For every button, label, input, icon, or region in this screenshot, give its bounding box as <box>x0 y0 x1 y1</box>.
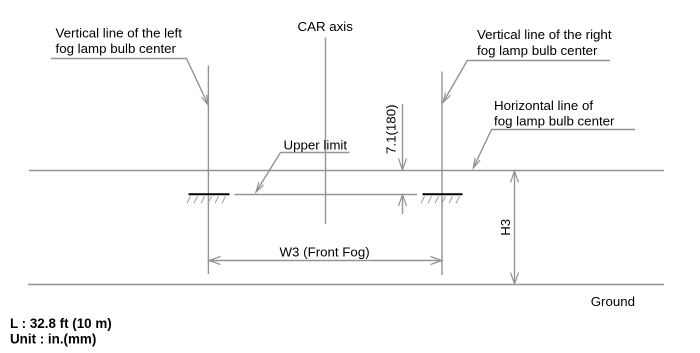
svg-text:Vertical line of the right: Vertical line of the right <box>477 27 612 42</box>
svg-text:H3: H3 <box>498 219 513 236</box>
svg-text:7.1(180): 7.1(180) <box>383 104 398 154</box>
svg-text:fog lamp bulb center: fog lamp bulb center <box>494 114 615 129</box>
svg-text:Vertical line of the left: Vertical line of the left <box>56 26 183 41</box>
svg-text:CAR axis: CAR axis <box>298 19 354 34</box>
svg-text:Ground: Ground <box>591 294 635 309</box>
svg-text:W3 (Front Fog): W3 (Front Fog) <box>280 245 370 260</box>
svg-text:Upper limit: Upper limit <box>284 138 348 153</box>
svg-text:fog lamp bulb center: fog lamp bulb center <box>477 43 598 58</box>
svg-text:L : 32.8 ft (10 m): L : 32.8 ft (10 m) <box>10 316 112 331</box>
svg-text:fog lamp bulb center: fog lamp bulb center <box>56 41 177 56</box>
svg-text:Unit : in.(mm): Unit : in.(mm) <box>10 332 96 347</box>
svg-text:Horizontal line of: Horizontal line of <box>494 98 593 113</box>
